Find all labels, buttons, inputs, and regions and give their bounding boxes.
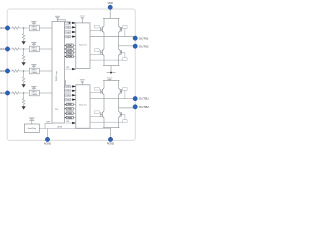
svg-text:OUTA1: OUTA1 xyxy=(139,36,149,40)
svg-text:PWB4: PWB4 xyxy=(65,99,70,101)
svg-text:PWB2: PWB2 xyxy=(65,91,70,93)
svg-text:FBA1: FBA1 xyxy=(67,44,71,47)
svg-text:FBB1: FBB1 xyxy=(67,104,71,106)
svg-text:STAGE: STAGE xyxy=(31,93,38,96)
svg-text:FBA3: FBA3 xyxy=(67,52,71,55)
svg-text:AIN2: AIN2 xyxy=(0,48,5,51)
svg-text:AIN1: AIN1 xyxy=(0,27,5,30)
svg-text:OUTB2: OUTB2 xyxy=(139,105,149,109)
svg-text:FBB3: FBB3 xyxy=(67,113,71,115)
svg-text:AIN4: AIN4 xyxy=(0,92,5,95)
svg-text:STAGE: STAGE xyxy=(31,28,38,31)
svg-text:Gate Drv: Gate Drv xyxy=(79,44,87,47)
svg-text:Gate Drv: Gate Drv xyxy=(79,104,87,107)
svg-text:PW: PW xyxy=(55,109,58,111)
svg-text:AGND: AGND xyxy=(44,143,51,146)
svg-text:OUTB1: OUTB1 xyxy=(139,97,149,101)
svg-text:AIN3: AIN3 xyxy=(0,70,5,73)
svg-text:FBA2: FBA2 xyxy=(67,48,71,51)
svg-text:PWM Logic: PWM Logic xyxy=(56,71,58,81)
svg-text:PGND: PGND xyxy=(107,143,114,146)
svg-text:FBB2: FBB2 xyxy=(67,109,71,111)
svg-text:RST: RST xyxy=(66,121,69,123)
svg-text:FBA4: FBA4 xyxy=(67,55,71,58)
svg-text:PWA2: PWA2 xyxy=(65,26,70,29)
svg-text:VDD: VDD xyxy=(107,1,113,5)
svg-text:STAGE: STAGE xyxy=(31,49,38,52)
svg-text:RST: RST xyxy=(66,67,69,69)
svg-text:AVSS: AVSS xyxy=(57,126,62,129)
svg-text:PWB1: PWB1 xyxy=(65,86,70,88)
svg-text:PWB3: PWB3 xyxy=(65,95,70,97)
svg-text:STAGE: STAGE xyxy=(31,71,38,74)
svg-text:PWA4: PWA4 xyxy=(65,35,70,38)
svg-text:OUTA2: OUTA2 xyxy=(139,44,149,48)
svg-text:FBB4: FBB4 xyxy=(67,116,71,119)
svg-text:Start/Stop: Start/Stop xyxy=(28,127,36,130)
svg-text:PWA3: PWA3 xyxy=(65,31,70,34)
